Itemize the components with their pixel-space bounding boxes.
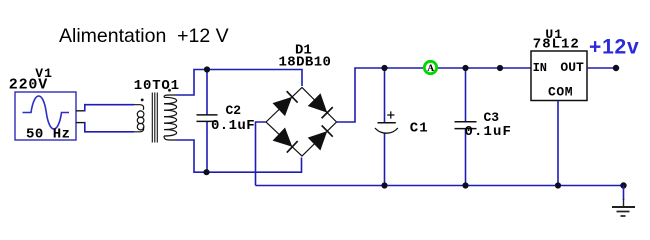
C3 value 0.1uF	[465, 124, 513, 140]
capacitor C1 polarity plus	[387, 111, 394, 118]
svg-text:220V: 220V	[9, 76, 48, 93]
bridge rectifier D1 diamond	[266, 88, 337, 157]
output label +12v	[589, 35, 640, 58]
V1 label	[35, 66, 53, 81]
source V1 box	[15, 92, 76, 140]
junction dot C3 top	[462, 65, 468, 71]
capacitor C2 lead upper	[206, 70, 208, 115]
capacitor C3 plates	[455, 122, 477, 129]
junction dot C3 bottom	[462, 182, 468, 188]
wire secondary bottom to bridge bottom	[177, 140, 302, 172]
regulator pin label OUT	[560, 60, 584, 75]
svg-text:10TO1: 10TO1	[134, 78, 180, 94]
transformer secondary phase dot	[168, 89, 171, 92]
capacitor C2 lead lower	[206, 122, 208, 172]
wire bridge right corner to output rail	[337, 68, 531, 122]
capacitor C3 lead lower	[465, 129, 467, 186]
wire regulator COM to ground rail	[557, 101, 559, 186]
wire bridge left corner to ground rail	[256, 122, 267, 186]
svg-text:50 Hz: 50 Hz	[26, 126, 71, 142]
junction dot C1 top	[381, 65, 387, 71]
diode D1b top-right	[308, 93, 334, 119]
junction dot C2 top	[204, 66, 210, 72]
wire down to ground	[623, 186, 625, 201]
capacitor C1 lead upper	[384, 68, 386, 122]
svg-text:IN: IN	[533, 61, 547, 75]
transformer secondary winding	[164, 95, 177, 140]
wire regulator output	[587, 67, 616, 69]
C2 label	[226, 103, 242, 118]
C1 label	[410, 120, 429, 136]
transformer T1 label 10TO1	[134, 78, 180, 94]
V1 terminal stub lower	[76, 122, 85, 124]
transformer primary phase dot	[141, 99, 144, 102]
svg-text:C1: C1	[410, 120, 429, 136]
junction dot C1 bottom	[381, 182, 387, 188]
diode D1c bottom-left	[273, 128, 299, 154]
junction dot COM	[555, 182, 561, 188]
svg-text:OUT: OUT	[560, 60, 584, 75]
svg-text:COM: COM	[548, 84, 573, 99]
node A marker	[424, 61, 436, 74]
C2 value 0.1uF	[211, 118, 255, 134]
title text	[59, 25, 229, 47]
junction dot rail	[497, 65, 503, 71]
svg-text:C3: C3	[484, 110, 500, 125]
diode D1d bottom-right	[308, 125, 334, 151]
svg-text:+12v: +12v	[589, 35, 640, 58]
svg-text:C2: C2	[226, 103, 242, 118]
bridge D1 value 18DB10	[279, 54, 332, 70]
capacitor C1 curved plate	[375, 128, 398, 133]
regulator U1 label	[545, 27, 563, 42]
transformer core	[152, 93, 157, 143]
wire secondary top to bridge top / node	[177, 70, 303, 96]
C3 label	[484, 110, 500, 125]
capacitor C3 lead upper	[465, 68, 467, 122]
diode D1a top-left	[273, 90, 299, 116]
svg-text:0.1uF: 0.1uF	[211, 118, 255, 134]
V1 value 220V	[9, 76, 48, 93]
regulator U1 value 78L12	[533, 37, 580, 53]
wire V1 lower to transformer primary	[85, 122, 134, 132]
regulator U1 box	[531, 51, 587, 101]
V1 terminal stub upper	[76, 110, 85, 112]
wire bottom ground rail	[256, 185, 624, 187]
bridge D1 label	[295, 42, 312, 58]
junction dot ground corner	[620, 182, 626, 188]
svg-text:18DB10: 18DB10	[279, 54, 332, 70]
ground symbol	[612, 199, 635, 216]
svg-text:78L12: 78L12	[533, 37, 580, 53]
wire V1 upper to transformer primary	[85, 105, 134, 112]
regulator pin label COM	[548, 84, 573, 99]
transformer primary winding	[134, 105, 144, 132]
capacitor C1 top plate	[378, 122, 396, 124]
svg-text:A: A	[427, 64, 434, 74]
capacitor C2 plates	[197, 115, 218, 122]
regulator pin label IN	[533, 61, 547, 75]
junction dot C2 bottom	[203, 169, 209, 175]
V1 value 50 Hz	[26, 126, 71, 142]
capacitor C1 lead lower	[384, 134, 386, 186]
output terminal dot	[613, 65, 619, 71]
svg-text:0.1uF: 0.1uF	[465, 124, 513, 140]
svg-text:Alimentation +12 V: Alimentation +12 V	[59, 25, 229, 47]
V1 sine waveform	[23, 96, 70, 129]
